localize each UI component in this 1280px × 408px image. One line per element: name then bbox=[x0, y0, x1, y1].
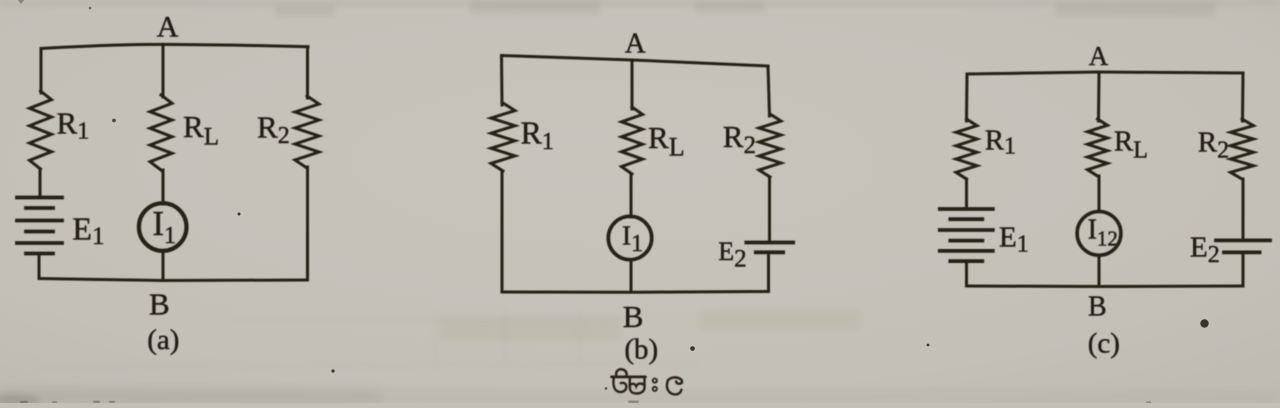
bullet right of (c) caption bbox=[1200, 319, 1208, 327]
battery E1 (c) bbox=[940, 209, 993, 261]
figure caption: চিত্র ঃ ৫ bbox=[612, 369, 683, 394]
svg-text:A: A bbox=[1089, 41, 1109, 71]
wire: (c) right branch upper bbox=[1241, 73, 1245, 121]
wire: (c) middle, resistor to ammeter bbox=[1098, 176, 1101, 212]
wire: (c) left branch upper bbox=[965, 74, 969, 121]
resistor R2 (a) bbox=[295, 96, 319, 168]
wire: (a) middle branch upper bbox=[162, 44, 165, 97]
dot speck near R1 (a) bbox=[112, 119, 116, 123]
wire: (b) middle, ammeter to bottom bbox=[630, 260, 633, 292]
circuit (c) bottom wire node B bbox=[967, 285, 1244, 289]
wire: (c) left, battery to bottom bbox=[965, 261, 968, 286]
resistor RL (b) bbox=[622, 107, 643, 174]
wire: (a) right branch lower bbox=[306, 167, 309, 280]
circuit (a) top wire node A bbox=[41, 44, 308, 48]
wire: (b) middle, resistor to ammeter bbox=[630, 174, 633, 217]
wire: (b) right, resistor to battery bbox=[768, 177, 771, 242]
battery E1 (a) bbox=[17, 198, 62, 254]
resistor R1 (c) bbox=[956, 119, 977, 179]
wire: (b) right branch upper bbox=[768, 66, 770, 116]
svg-text:B: B bbox=[149, 287, 170, 322]
svg-text:(b): (b) bbox=[624, 334, 658, 366]
circuit (c) top wire node A bbox=[967, 72, 1243, 74]
svg-text:B: B bbox=[1088, 292, 1107, 323]
speck top-left corner bbox=[18, 0, 24, 4]
wire: (b) right, battery to bottom bbox=[767, 252, 770, 291]
wire: (c) right, resistor to battery bbox=[1242, 179, 1245, 240]
ammeter I1 (a) bbox=[139, 203, 187, 251]
resistor R2 (b) bbox=[759, 114, 781, 177]
resistor RL (c) bbox=[1088, 119, 1108, 176]
wire: (c) left, resistor to battery bbox=[965, 179, 968, 209]
wire: (b) left branch lower bbox=[501, 171, 504, 292]
svg-text:A: A bbox=[625, 28, 646, 60]
wire: (c) middle, ammeter to bottom bbox=[1098, 255, 1101, 286]
wire: (c) right, battery to bottom bbox=[1242, 252, 1245, 286]
wire: (a) left branch upper bbox=[40, 49, 43, 94]
wire: (c) middle branch upper bbox=[1097, 72, 1101, 121]
wire: (a) left, battery to bottom bbox=[38, 254, 41, 279]
resistor RL (a) bbox=[150, 95, 172, 170]
wire: (a) right branch upper bbox=[306, 47, 309, 98]
resistor R2 (c) bbox=[1231, 119, 1254, 179]
ammeter I12 (c) bbox=[1077, 212, 1121, 256]
wire: (a) middle, ammeter to bottom bbox=[162, 251, 165, 281]
battery E2 (b) bbox=[746, 243, 793, 253]
battery E2 (c) bbox=[1216, 240, 1270, 252]
ammeter I1 (b) bbox=[608, 216, 651, 259]
circuit (b) bottom wire node B bbox=[502, 290, 769, 294]
svg-text:(c): (c) bbox=[1088, 327, 1120, 359]
svg-text:B: B bbox=[623, 299, 644, 334]
wire: (a) middle, resistor to ammeter bbox=[162, 170, 165, 204]
svg-text:(a): (a) bbox=[147, 324, 179, 356]
wire: (a) left, resistor to battery bbox=[39, 169, 42, 198]
resistor R1 (b) bbox=[491, 103, 515, 171]
circuit (b) top wire node A bbox=[502, 56, 769, 67]
wire: (b) middle branch upper bbox=[631, 60, 634, 109]
circuit (a) bottom wire node B bbox=[39, 279, 308, 281]
resistor R1 (a) bbox=[30, 91, 52, 169]
wire: (b) left branch upper bbox=[500, 56, 504, 106]
svg-text:A: A bbox=[157, 11, 179, 44]
